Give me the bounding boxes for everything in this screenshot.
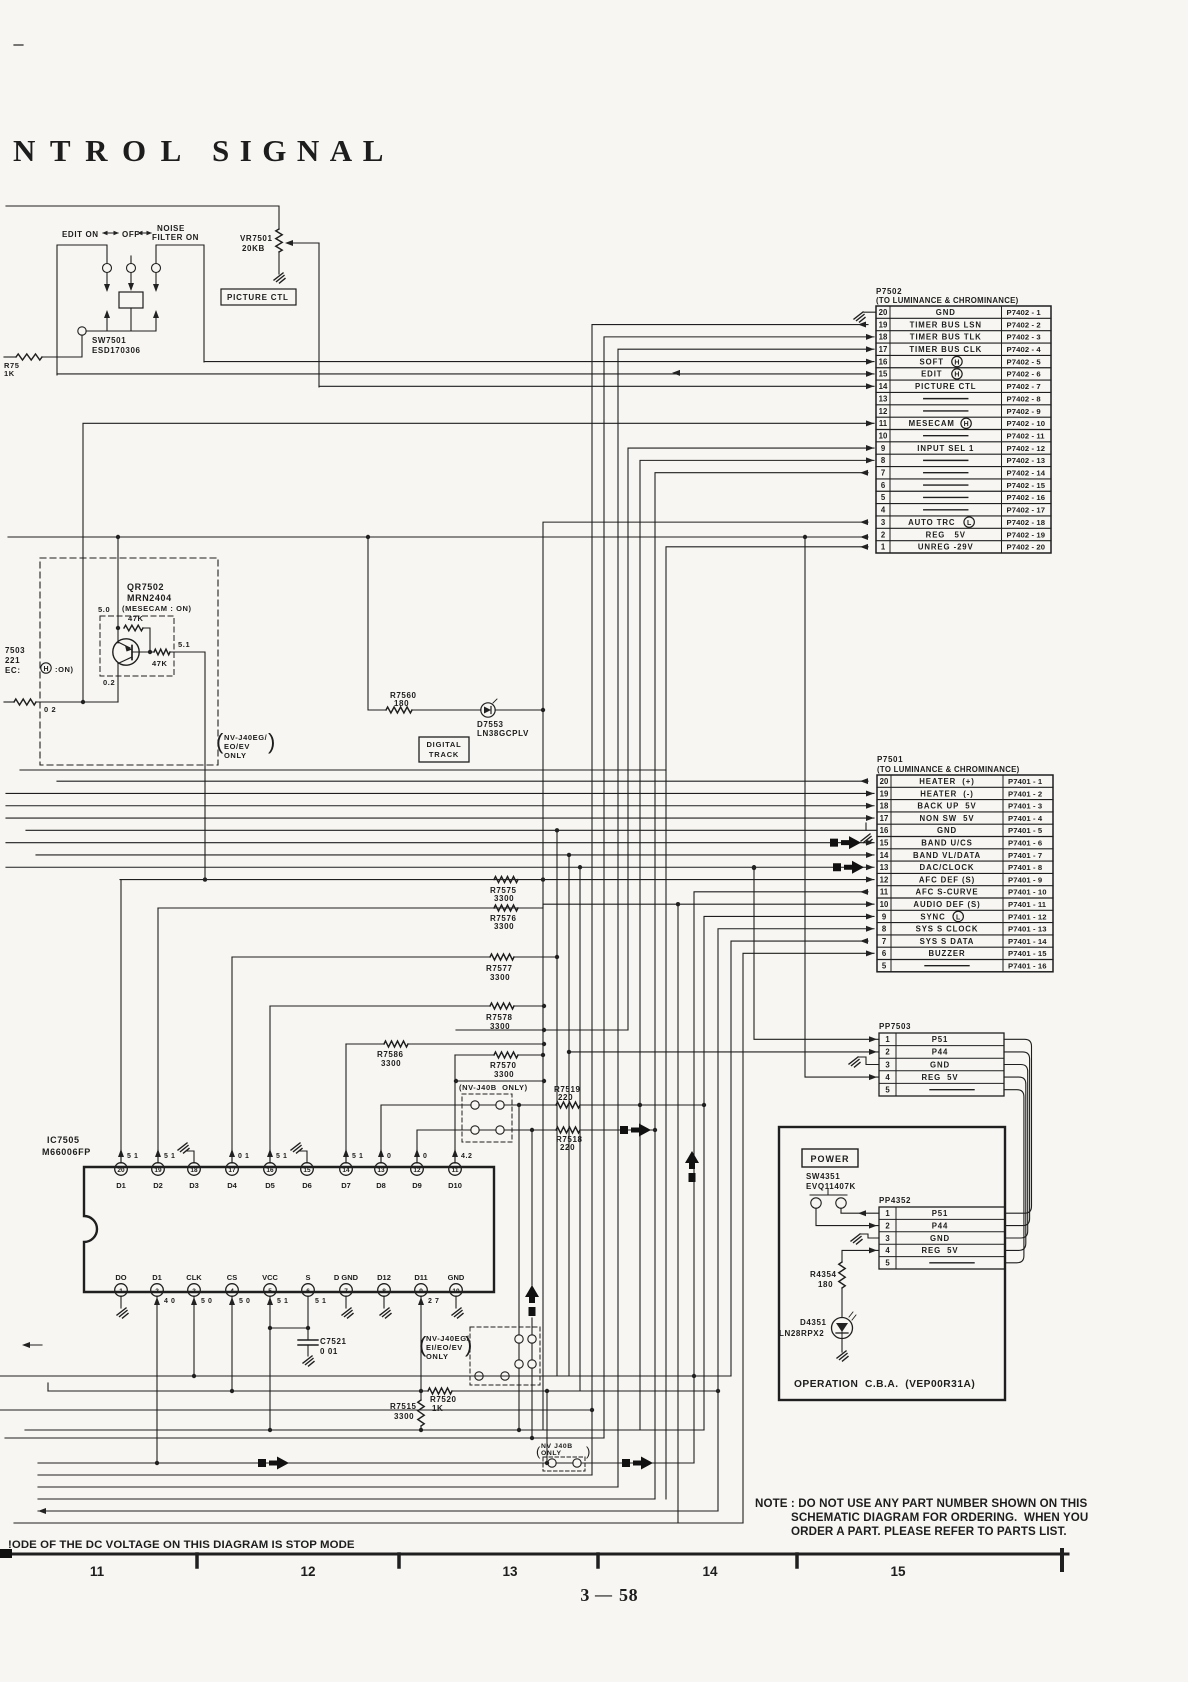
IC7505 pin 12 (D9) bbox=[411, 1163, 424, 1176]
svg-text:3300: 3300 bbox=[490, 973, 510, 982]
flow arrow up NV-J40EG bus bbox=[525, 1285, 539, 1303]
svg-text:D11: D11 bbox=[414, 1273, 427, 1282]
svg-text:15: 15 bbox=[880, 838, 889, 847]
svg-text:D1: D1 bbox=[116, 1181, 126, 1190]
IC7505 pin 6 (S) bbox=[302, 1284, 315, 1297]
svg-text:13: 13 bbox=[879, 394, 888, 403]
bus vertical x557 bbox=[556, 830, 558, 1376]
svg-text:SW4351: SW4351 bbox=[806, 1172, 840, 1181]
svg-text:MESECAM: MESECAM bbox=[909, 419, 955, 428]
svg-text:6: 6 bbox=[881, 481, 886, 490]
LED D7553 LN38GCPLV bbox=[481, 703, 495, 717]
IC7505 pin 5 (VCC) bbox=[264, 1284, 277, 1297]
svg-text:8: 8 bbox=[881, 456, 886, 465]
svg-text:14: 14 bbox=[702, 1564, 718, 1579]
svg-text:AUTO TRC: AUTO TRC bbox=[908, 518, 955, 527]
svg-text:14: 14 bbox=[342, 1167, 350, 1174]
svg-text:H: H bbox=[43, 666, 48, 673]
wire to P7502 pin 8 bbox=[640, 460, 874, 1430]
svg-text:GND: GND bbox=[448, 1273, 465, 1282]
svg-text:5: 5 bbox=[885, 1086, 890, 1095]
bus wire row 1499 bbox=[38, 1498, 655, 1500]
wire REG 5V to PP7503 pin 4 bbox=[805, 537, 879, 1077]
svg-text:12: 12 bbox=[879, 407, 888, 416]
IC7505 pin 4 (CS) bbox=[226, 1284, 239, 1297]
svg-text:EI/EO/EV: EI/EO/EV bbox=[426, 1343, 463, 1352]
svg-text:VR7501: VR7501 bbox=[240, 234, 273, 243]
ground at PP7503 pin 3 bbox=[858, 1057, 879, 1065]
wire IC pin 13 up to R7519 jumper net bbox=[381, 1105, 471, 1163]
svg-text:11: 11 bbox=[879, 419, 888, 428]
IC U7505 body M66006FP bbox=[84, 1167, 494, 1292]
wire R7519 to bus bbox=[580, 1104, 704, 1106]
svg-text:12: 12 bbox=[300, 1564, 315, 1579]
wire R7520 branch down bbox=[546, 1391, 548, 1463]
label box DIGITAL TRACK bbox=[419, 737, 469, 762]
wire switch EDIT to P7502 pin 15 EDIT bbox=[57, 373, 874, 375]
wire IC pin 5 VCC down bbox=[269, 1296, 271, 1430]
svg-text:GND: GND bbox=[930, 1060, 950, 1069]
svg-text:7: 7 bbox=[881, 469, 885, 478]
svg-text:AFC DEF (S): AFC DEF (S) bbox=[919, 875, 975, 884]
svg-text:P7402 - 14: P7402 - 14 bbox=[1007, 469, 1046, 478]
svg-text:PP4352: PP4352 bbox=[879, 1196, 911, 1205]
IC7505 pin 1 (DO) bbox=[115, 1284, 128, 1297]
svg-text:P7401 - 9: P7401 - 9 bbox=[1008, 875, 1042, 884]
svg-text:D1: D1 bbox=[152, 1273, 162, 1282]
resistor R7560 180 bbox=[386, 707, 412, 713]
svg-text:P7402 - 8: P7402 - 8 bbox=[1007, 394, 1042, 403]
svg-text:14: 14 bbox=[880, 851, 889, 860]
svg-text:5: 5 bbox=[881, 493, 886, 502]
svg-text:P7401 - 4: P7401 - 4 bbox=[1008, 814, 1043, 823]
bus wire row 1410 bbox=[0, 1409, 592, 1411]
IC7505 pin 2 (D1) bbox=[151, 1284, 164, 1297]
operation c.b.a. board outline (VEP00R31A) bbox=[779, 1127, 1005, 1400]
IC7505 pin 18 (D3) bbox=[188, 1163, 201, 1176]
svg-text:R7520: R7520 bbox=[430, 1395, 457, 1404]
svg-text:AFC S-CURVE: AFC S-CURVE bbox=[915, 888, 978, 897]
svg-text:3: 3 bbox=[580, 1585, 590, 1605]
wire R7575 net to P7401 pin 12 AFC DEF bbox=[120, 879, 874, 881]
svg-text:6: 6 bbox=[306, 1288, 310, 1295]
wire aux net 1081 bbox=[456, 1080, 544, 1082]
svg-text:EDIT: EDIT bbox=[921, 370, 942, 379]
svg-text:58: 58 bbox=[619, 1585, 638, 1605]
svg-text:0: 0 bbox=[387, 1153, 392, 1160]
svg-text:P7402 - 5: P7402 - 5 bbox=[1007, 357, 1042, 366]
IC7505 pin 8 (D12) bbox=[378, 1284, 391, 1297]
svg-text:UNREG -29V: UNREG -29V bbox=[918, 543, 974, 552]
svg-text:20: 20 bbox=[880, 777, 889, 786]
IC7505 pin 3 (CLK) bbox=[188, 1284, 201, 1297]
svg-text:15: 15 bbox=[303, 1167, 311, 1174]
svg-text:P7401 - 14: P7401 - 14 bbox=[1008, 937, 1047, 946]
wire top bus to VR7501 bbox=[6, 206, 279, 229]
bias resistor at left edge bbox=[14, 699, 36, 705]
svg-text:P7401 - 7: P7401 - 7 bbox=[1008, 851, 1042, 860]
svg-text:AUDIO DEF (S): AUDIO DEF (S) bbox=[913, 900, 980, 909]
svg-text:TIMER BUS CLK: TIMER BUS CLK bbox=[909, 345, 982, 354]
svg-text:BUZZER: BUZZER bbox=[928, 949, 965, 958]
svg-text:3: 3 bbox=[192, 1288, 196, 1295]
svg-text:REG 5V: REG 5V bbox=[921, 1246, 958, 1255]
svg-text:17: 17 bbox=[228, 1167, 236, 1174]
svg-text:P7402 - 10: P7402 - 10 bbox=[1007, 419, 1046, 428]
svg-text:D GND: D GND bbox=[334, 1273, 359, 1282]
wire to P7502 pin 1 UNREG -29V bbox=[666, 547, 868, 1499]
svg-text:D12: D12 bbox=[377, 1273, 391, 1282]
svg-text:P7402 - 15: P7402 - 15 bbox=[1007, 481, 1046, 490]
svg-text:D5: D5 bbox=[265, 1181, 275, 1190]
wire R7560 to D7553 bbox=[412, 709, 481, 711]
svg-text:P44: P44 bbox=[932, 1048, 949, 1057]
svg-text:9: 9 bbox=[419, 1288, 423, 1295]
svg-text:17: 17 bbox=[879, 345, 888, 354]
resistor R7576 3300 on AUDIO DEF net bbox=[494, 905, 518, 911]
svg-text:P7401 - 10: P7401 - 10 bbox=[1008, 888, 1047, 897]
svg-text:D8: D8 bbox=[376, 1181, 386, 1190]
svg-text:EDIT ON: EDIT ON bbox=[62, 230, 99, 239]
inner dashed box QR7502 bbox=[100, 616, 174, 676]
svg-text:15: 15 bbox=[890, 1564, 906, 1579]
bus wire row 1487 bbox=[38, 1486, 618, 1488]
svg-text:1: 1 bbox=[885, 1209, 890, 1218]
svg-text:L: L bbox=[956, 914, 961, 921]
svg-text:11: 11 bbox=[90, 1564, 105, 1579]
wire to P7502 pin 18 TIMER BUS TLK bbox=[604, 337, 874, 1438]
svg-text:(TO LUMINANCE & CHROMINANCE): (TO LUMINANCE & CHROMINANCE) bbox=[877, 765, 1020, 774]
jumper verticals NV-J40EG bbox=[518, 1105, 520, 1327]
resistor R7570 3300 bbox=[455, 1054, 494, 1056]
svg-text:OPERATION C.B.A. (VEP00R31A): OPERATION C.B.A. (VEP00R31A) bbox=[794, 1379, 975, 1390]
svg-text:3: 3 bbox=[885, 1060, 890, 1069]
svg-text:BAND U/CS: BAND U/CS bbox=[921, 838, 972, 847]
ground below D4351 bbox=[841, 1339, 843, 1353]
svg-text:8: 8 bbox=[382, 1288, 386, 1295]
resistor R4354 180 bbox=[839, 1262, 845, 1288]
svg-text:3300: 3300 bbox=[494, 922, 514, 931]
wire to P7401 pin 18 BACK UP 5V bbox=[6, 805, 874, 807]
resistor R7520 1K in series on bus bbox=[428, 1388, 452, 1394]
potentiometer VR7501 20KB bbox=[276, 229, 282, 252]
circled H :ON label bbox=[41, 663, 51, 673]
svg-text:P7401 - 3: P7401 - 3 bbox=[1008, 802, 1042, 811]
svg-text:R4354: R4354 bbox=[810, 1270, 837, 1279]
arrows between switch position labels bbox=[103, 232, 118, 234]
IC7505 pin 17 (D4) bbox=[226, 1163, 239, 1176]
svg-text:P7402 - 13: P7402 - 13 bbox=[1007, 456, 1046, 465]
resistor R7577 3300 bbox=[232, 956, 490, 958]
svg-text:5 0: 5 0 bbox=[201, 1298, 213, 1305]
wire VR7501 to P7502 pin 14 PICTURE CTL bbox=[319, 385, 874, 387]
svg-text:EVQ11407K: EVQ11407K bbox=[806, 1182, 856, 1191]
svg-text:REG 5V: REG 5V bbox=[926, 530, 966, 539]
connector PP7503 table bbox=[879, 1033, 1004, 1096]
svg-text:NOTE : DO NOT USE ANY PART NUM: NOTE : DO NOT USE ANY PART NUMBER SHOWN … bbox=[755, 1497, 1088, 1510]
svg-text:10: 10 bbox=[879, 431, 888, 440]
wire P44 to PP7503 pin 2 bbox=[569, 1051, 879, 1053]
svg-text:4 0: 4 0 bbox=[164, 1298, 176, 1305]
label box POWER bbox=[802, 1149, 858, 1167]
svg-text:BAND VL/DATA: BAND VL/DATA bbox=[913, 851, 981, 860]
svg-text:2 7: 2 7 bbox=[428, 1298, 440, 1305]
svg-text:14: 14 bbox=[879, 382, 888, 391]
IC7505 pin 9 (D11) bbox=[415, 1284, 428, 1297]
svg-text:ONLY: ONLY bbox=[224, 751, 247, 760]
svg-text:PP7503: PP7503 bbox=[879, 1022, 911, 1031]
svg-text:4: 4 bbox=[881, 506, 886, 515]
svg-text:P44: P44 bbox=[932, 1221, 949, 1230]
svg-text:2: 2 bbox=[885, 1048, 890, 1057]
svg-text:9: 9 bbox=[882, 912, 887, 921]
svg-text:R7577: R7577 bbox=[486, 964, 513, 973]
wire IC pin 11 up to R7570 net bbox=[454, 1055, 456, 1163]
svg-text:16: 16 bbox=[879, 357, 888, 366]
wire to P7401 pin 14 BAND VL/DATA bbox=[36, 854, 874, 856]
ground at IC pin 15 bbox=[299, 1151, 307, 1163]
LED D4351 LN28RPX2 bbox=[832, 1318, 853, 1339]
switch pole arrows down bbox=[106, 273, 108, 290]
svg-text:S: S bbox=[305, 1273, 310, 1282]
svg-text:7: 7 bbox=[344, 1288, 348, 1295]
svg-text:NV-J40EG/: NV-J40EG/ bbox=[426, 1334, 470, 1343]
wire IC pin 12 up to R7518 jumper net bbox=[417, 1130, 471, 1163]
wire R7576 net to P7401 pin 10 AUDIO DEF bbox=[158, 904, 874, 908]
wire MESECAM row to QR7502 node bbox=[82, 424, 84, 702]
bus wire row 1463 with jumper NV-J40B bbox=[38, 1462, 548, 1464]
svg-text:2: 2 bbox=[881, 530, 886, 539]
svg-text:5 1: 5 1 bbox=[315, 1298, 327, 1305]
svg-text:POWER: POWER bbox=[810, 1154, 849, 1164]
wire to P7401 pin 13 DAC/CLOCK with flow arrow bbox=[6, 866, 874, 868]
wire to P7401 pin 11 AFC S-CURVE bbox=[694, 892, 868, 1463]
svg-text:13: 13 bbox=[377, 1167, 385, 1174]
svg-text:10: 10 bbox=[452, 1288, 460, 1295]
IC7505 pin 10 (GND) bbox=[450, 1284, 463, 1297]
svg-text:5 0: 5 0 bbox=[239, 1298, 251, 1305]
IC7505 pin 14 (D7) bbox=[340, 1163, 353, 1176]
wire PP4352 pin 4 to R4354 bbox=[842, 1250, 879, 1262]
svg-text:ORDER A PART. PLEASE REFER TO: ORDER A PART. PLEASE REFER TO PARTS LIST… bbox=[791, 1525, 1067, 1538]
svg-text:NV J40B: NV J40B bbox=[541, 1443, 573, 1450]
svg-text:P7401 - 6: P7401 - 6 bbox=[1008, 838, 1042, 847]
svg-text:3: 3 bbox=[881, 518, 886, 527]
svg-text:R7586: R7586 bbox=[377, 1050, 404, 1059]
svg-text:SYS S CLOCK: SYS S CLOCK bbox=[916, 925, 979, 934]
svg-text:NV-J40EG/: NV-J40EG/ bbox=[224, 733, 268, 742]
switch SW7501 ESD170306 frame left (EDIT) bbox=[57, 245, 107, 375]
svg-text:11: 11 bbox=[452, 1167, 459, 1174]
wire REG5V to R7560 branch bbox=[368, 537, 386, 710]
wire to P7401 pin 16 GND with ground bbox=[26, 829, 877, 831]
ruler bar bbox=[0, 1553, 1068, 1556]
svg-text:5: 5 bbox=[882, 961, 887, 970]
svg-text:DAC/CLOCK: DAC/CLOCK bbox=[920, 863, 975, 872]
svg-text:SOFT: SOFT bbox=[920, 357, 944, 366]
wire IC pin 16 up to R7578 net bbox=[269, 1006, 271, 1163]
svg-text:DIGITAL: DIGITAL bbox=[426, 740, 461, 749]
wire to P7401 pin 8 SYS S CLOCK bbox=[718, 929, 874, 1511]
ground at PP4352 pin 3 bbox=[860, 1234, 879, 1238]
svg-text:(: ( bbox=[216, 729, 224, 754]
transistor QR7502 MRN2404 bbox=[113, 639, 139, 665]
svg-text:P7402 - 11: P7402 - 11 bbox=[1007, 431, 1046, 440]
svg-text:1K: 1K bbox=[432, 1404, 443, 1413]
svg-text:2: 2 bbox=[885, 1221, 890, 1230]
svg-text:TIMER BUS TLK: TIMER BUS TLK bbox=[910, 333, 982, 342]
svg-text:3300: 3300 bbox=[494, 1070, 514, 1079]
bus wire row 1376 bbox=[0, 1375, 731, 1377]
svg-text:P7401 - 16: P7401 - 16 bbox=[1008, 961, 1047, 970]
wire IC pin 19 up to R7576 net bbox=[157, 908, 159, 1163]
svg-text:1: 1 bbox=[119, 1288, 123, 1295]
svg-text:D10: D10 bbox=[448, 1181, 462, 1190]
bus vertical x569 bbox=[568, 855, 570, 1376]
bus wire row 1523 bbox=[14, 1522, 743, 1524]
wire IC pin 3 down to bus bbox=[193, 1296, 195, 1376]
svg-text:19: 19 bbox=[879, 320, 888, 329]
svg-text:—: — bbox=[594, 1585, 613, 1604]
svg-text:LN38GCPLV: LN38GCPLV bbox=[477, 729, 529, 738]
wire R7518 to bus with flow arrow bbox=[580, 1129, 655, 1131]
connector PP4352 table bbox=[879, 1207, 1005, 1269]
wire QR7502 output to net 5.1 bbox=[170, 652, 205, 880]
svg-text:P7402 - 18: P7402 - 18 bbox=[1007, 518, 1046, 527]
svg-text:P7402 - 9: P7402 - 9 bbox=[1007, 407, 1041, 416]
svg-text:5.0: 5.0 bbox=[98, 605, 110, 614]
wire SW4351 left contact to PP4352 pin 2 bbox=[816, 1209, 879, 1226]
bus wires PP7503 to PP4352 (5 nested) bbox=[1004, 1039, 1032, 1213]
svg-text:P7401 - 8: P7401 - 8 bbox=[1008, 863, 1043, 872]
wire to P7401 pin 15 BAND U/CS with flow arrow bbox=[6, 842, 874, 844]
resistor 47K base right bbox=[132, 651, 154, 653]
svg-text:REG 5V: REG 5V bbox=[921, 1073, 958, 1082]
wire IC pin 20 up to R7575 net bbox=[120, 880, 122, 1163]
svg-text:5 1: 5 1 bbox=[127, 1153, 139, 1160]
IC7505 top pin stubs and arrows bbox=[120, 1150, 122, 1163]
svg-text:(NV-J40B ONLY): (NV-J40B ONLY) bbox=[459, 1083, 528, 1092]
svg-text:QR7502: QR7502 bbox=[127, 582, 164, 592]
svg-text:R7570: R7570 bbox=[490, 1061, 517, 1070]
svg-text:FILTER ON: FILTER ON bbox=[152, 233, 199, 242]
svg-text:NOISE: NOISE bbox=[157, 224, 185, 233]
svg-text:TRACK: TRACK bbox=[429, 750, 459, 759]
svg-text:19: 19 bbox=[880, 789, 889, 798]
IC7505 pin 16 (D5) bbox=[264, 1163, 277, 1176]
svg-text:SYS S DATA: SYS S DATA bbox=[920, 937, 975, 946]
svg-text:NTROL: NTROL bbox=[13, 133, 196, 168]
resistor R7578 3300 bbox=[270, 1005, 490, 1007]
svg-text:SCHEMATIC DIAGRAM FOR ORDERING: SCHEMATIC DIAGRAM FOR ORDERING. WHEN YOU bbox=[791, 1511, 1088, 1524]
svg-text:P7402 - 16: P7402 - 16 bbox=[1007, 493, 1046, 502]
svg-text:D6: D6 bbox=[302, 1181, 312, 1190]
svg-text:17: 17 bbox=[880, 814, 889, 823]
svg-text:5 1: 5 1 bbox=[352, 1153, 364, 1160]
svg-text:P7402 - 19: P7402 - 19 bbox=[1007, 530, 1046, 539]
svg-text:P7402 - 4: P7402 - 4 bbox=[1007, 345, 1042, 354]
svg-text:EC:: EC: bbox=[5, 666, 21, 675]
svg-text:(TO LUMINANCE & CHROMINANCE): (TO LUMINANCE & CHROMINANCE) bbox=[876, 296, 1019, 305]
svg-text:9: 9 bbox=[881, 444, 886, 453]
svg-text:D9: D9 bbox=[412, 1181, 422, 1190]
ground at P7502 pin 20 bbox=[864, 311, 876, 313]
switch frame right (NOISE FILTER) bbox=[156, 245, 204, 362]
svg-text:DO: DO bbox=[115, 1273, 126, 1282]
dashed region QR7502 (MESECAM ON) bbox=[40, 558, 218, 765]
wire IC pin 4 down to bus bbox=[231, 1296, 233, 1391]
IC7505 pin 7 (D GND) bbox=[340, 1284, 353, 1297]
svg-text:221: 221 bbox=[5, 656, 20, 665]
svg-text:P51: P51 bbox=[932, 1209, 949, 1218]
svg-text:P7402 - 17: P7402 - 17 bbox=[1007, 506, 1046, 515]
connector P7501 table (TO LUMINANCE & CHROMINANCE) bbox=[877, 775, 1053, 972]
IC7505 pin 19 (D2) bbox=[152, 1163, 165, 1176]
grounds at IC bottom pins 1,7,8,10 bbox=[120, 1296, 122, 1308]
IC7505 pin 20 (D1) bbox=[115, 1163, 128, 1176]
svg-text:13: 13 bbox=[880, 863, 889, 872]
wire to P7502 pin 9 INPUT SEL 1 bbox=[628, 448, 874, 1030]
svg-text:1K: 1K bbox=[4, 369, 15, 378]
svg-text:0: 0 bbox=[423, 1153, 428, 1160]
wire to P7502 pin 17 TIMER BUS CLK bbox=[618, 349, 874, 1487]
svg-text:P7402 - 20: P7402 - 20 bbox=[1007, 543, 1046, 552]
svg-text:D7553: D7553 bbox=[477, 720, 504, 729]
IC7505 pin 11 (D10) bbox=[449, 1163, 462, 1176]
svg-text:H: H bbox=[964, 421, 969, 428]
svg-text:HEATER (+): HEATER (+) bbox=[919, 777, 974, 786]
wire to P7401 pin 9 SYNC bbox=[677, 904, 679, 1523]
svg-text:SW7501: SW7501 bbox=[92, 336, 126, 345]
svg-text:GND: GND bbox=[930, 1234, 950, 1243]
svg-text:D4351: D4351 bbox=[800, 1318, 827, 1327]
svg-text:5: 5 bbox=[885, 1259, 890, 1268]
svg-text:8: 8 bbox=[882, 925, 887, 934]
svg-text:4: 4 bbox=[885, 1246, 890, 1255]
svg-text:SIGNAL: SIGNAL bbox=[212, 133, 394, 168]
wire vertical bus P51 to PP7503 pin 1 bbox=[754, 868, 879, 1039]
wire IC pin 17 up to R7577 net bbox=[231, 957, 233, 1163]
resistor R75.. 1K at left edge bbox=[16, 354, 42, 360]
wire switch NOISE to P7502 pin 16 SOFT bbox=[204, 361, 874, 363]
svg-text:4: 4 bbox=[885, 1073, 890, 1082]
wire REG 5V bus to P7502 pin 2 bbox=[8, 536, 868, 538]
svg-text:220: 220 bbox=[558, 1093, 573, 1102]
svg-text:P7401 - 5: P7401 - 5 bbox=[1008, 826, 1043, 835]
label box PICTURE CTL bbox=[221, 289, 296, 305]
VR7501 wiper arrow bbox=[291, 242, 319, 244]
IC7505 pin 15 (D6) bbox=[301, 1163, 314, 1176]
svg-text:P7401 - 13: P7401 - 13 bbox=[1008, 925, 1047, 934]
wire QR7502 to P7502 pin 11 MESECAM bbox=[83, 422, 874, 424]
svg-text:LN28RPX2: LN28RPX2 bbox=[779, 1329, 824, 1338]
switch pole arrows up to common bbox=[106, 312, 108, 330]
capacitor C7521 0.01 bbox=[307, 1328, 309, 1340]
svg-text:P7402 - 7: P7402 - 7 bbox=[1007, 382, 1041, 391]
svg-text:5 1: 5 1 bbox=[276, 1153, 288, 1160]
svg-text:ESD170306: ESD170306 bbox=[92, 346, 141, 355]
svg-text:P7402 - 12: P7402 - 12 bbox=[1007, 444, 1046, 453]
scan mark top left bbox=[14, 44, 23, 46]
svg-text:P7402 - 6: P7402 - 6 bbox=[1007, 370, 1041, 379]
svg-text:GND: GND bbox=[937, 826, 957, 835]
svg-text:ONLY: ONLY bbox=[426, 1352, 449, 1361]
wire IC pin 2 down bbox=[156, 1296, 158, 1463]
svg-text:18: 18 bbox=[880, 802, 889, 811]
svg-text:12: 12 bbox=[880, 875, 889, 884]
ground at IC pin 18 bbox=[186, 1151, 194, 1163]
svg-text:H: H bbox=[954, 359, 959, 366]
